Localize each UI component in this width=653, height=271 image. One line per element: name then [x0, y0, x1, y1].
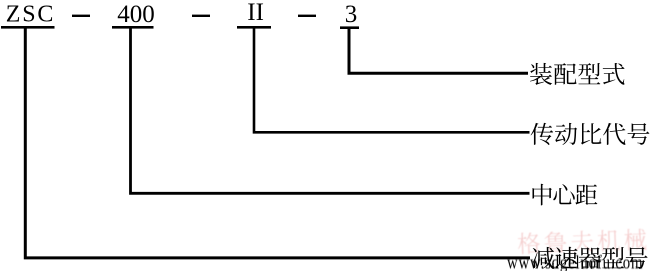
leader line from II to ratio-code label [254, 28, 530, 132]
code text 400 [117, 1, 155, 28]
svg-text:3: 3 [345, 1, 358, 28]
watermark red characters [518, 228, 647, 254]
code text II [247, 0, 264, 26]
underline under 400 [112, 26, 154, 29]
svg-text:II: II [247, 0, 264, 26]
label centre distance [532, 184, 597, 206]
svg-text:ZSC: ZSC [6, 2, 55, 28]
code text ZSC [6, 2, 55, 28]
label assembly type [530, 63, 625, 85]
label transmission ratio code [531, 123, 650, 145]
leader line from 3 to assembly-type label [349, 28, 528, 73]
label reducer model [532, 247, 648, 269]
svg-text:400: 400 [117, 1, 155, 28]
leader line from ZSC to reducer-model label [25, 28, 530, 258]
underline under II [237, 26, 271, 29]
underline under 3 [340, 26, 359, 29]
dash 2 [192, 15, 210, 17]
code text 3 [345, 1, 358, 28]
underline under ZSC [1, 26, 55, 29]
watermark url text www [507, 252, 643, 271]
dash 3 [298, 15, 316, 17]
leader line from 400 to centre-distance label [131, 28, 530, 193]
dash 1 [72, 15, 90, 17]
